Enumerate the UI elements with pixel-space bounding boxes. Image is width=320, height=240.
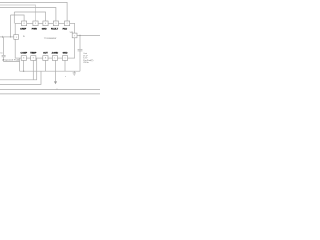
pin box top 2 <box>33 21 38 26</box>
pin box bottom 3 <box>43 56 48 61</box>
pin box bottom 5 <box>62 56 67 61</box>
svg-text:TEMP: TEMP <box>30 53 37 55</box>
wire rail5 <box>11 15 25 21</box>
junction dot output <box>79 35 80 36</box>
wire rail4 <box>14 12 45 21</box>
wire output <box>77 34 100 36</box>
svg-text:C1: C1 <box>0 53 2 55</box>
svg-text:1: 1 <box>54 58 55 60</box>
pin box top 1 <box>22 21 27 26</box>
wire output cap drop <box>79 35 81 71</box>
wire input left <box>0 36 14 38</box>
wire rail3 <box>0 8 56 22</box>
wire rail1 top <box>0 2 67 21</box>
svg-text:TTC08000SW: TTC08000SW <box>44 38 57 40</box>
pin box bottom 1 <box>21 56 26 61</box>
wire cap C1 branch <box>3 37 5 55</box>
svg-text:2: 2 <box>67 23 68 25</box>
wire bottom rail4 <box>0 93 100 95</box>
ground G1 <box>73 71 75 73</box>
svg-text:7: 7 <box>74 35 75 37</box>
svg-text:3: 3 <box>55 23 56 25</box>
svg-text:AGND: AGND <box>52 52 59 55</box>
pin box top 5 <box>65 21 70 26</box>
junction dot input <box>10 36 11 37</box>
wire cap C1 bottom <box>4 57 20 62</box>
wire bottom rail1 <box>0 58 37 80</box>
wire pin2 bottom drop <box>32 61 34 80</box>
svg-text:V33: V33 <box>70 32 73 34</box>
wire pin5 bottom drop <box>64 61 66 72</box>
svg-text:4: 4 <box>45 23 46 25</box>
svg-text:1: 1 <box>16 37 17 39</box>
junction dot pad rail <box>23 71 24 72</box>
input terminal tick <box>2 36 4 38</box>
svg-text:PWR: PWR <box>32 28 38 30</box>
pin box left <box>14 35 19 40</box>
svg-text:8: 8 <box>23 58 24 60</box>
svg-text:GND: GND <box>63 53 68 55</box>
pin box top 4 <box>53 21 58 26</box>
svg-text:5: 5 <box>35 23 36 25</box>
svg-text:GND: GND <box>42 28 47 30</box>
wire pin3 bottom drop <box>44 61 46 72</box>
svg-text:CREF: CREF <box>20 28 27 30</box>
wire bottom rail3 <box>0 88 100 90</box>
svg-text:FAULT: FAULT <box>51 27 59 30</box>
label Cout block <box>83 52 94 64</box>
svg-text:X5R dc: X5R dc <box>83 62 89 64</box>
op-amp U1 IC body outline <box>15 23 74 58</box>
svg-text:u: u <box>65 76 66 78</box>
wire exposed pad stub <box>19 58 21 71</box>
pin numbers <box>16 23 75 60</box>
pin box top 3 <box>43 21 48 26</box>
pin box right <box>72 33 77 38</box>
svg-text:8: 8 <box>45 58 46 60</box>
wire bottom rail2 <box>0 71 41 84</box>
svg-text:n: n <box>57 88 58 90</box>
capacitor C2 output plates <box>78 49 83 51</box>
wire rail2 <box>0 5 36 21</box>
svg-text:PAD: PAD <box>63 27 68 30</box>
svg-text:6: 6 <box>24 23 25 25</box>
capacitor C1 <box>2 54 6 56</box>
pin box bottom 4 <box>52 56 57 61</box>
wire left drop B <box>13 12 15 23</box>
wire pin1 bottom drop <box>23 61 25 72</box>
svg-text:(Exposed Pad): (Exposed Pad) <box>2 60 19 62</box>
svg-text:COMP: COMP <box>21 53 28 55</box>
pin box bottom 2 <box>31 56 36 61</box>
wire left drop A <box>10 15 12 37</box>
ground arrow head <box>54 81 57 84</box>
svg-text:1: 1 <box>65 58 66 60</box>
wire gnd rail mid <box>20 70 80 72</box>
wire pin4 bottom drop <box>55 61 57 82</box>
svg-text:OUT: OUT <box>43 53 48 55</box>
svg-text:9: 9 <box>33 58 34 60</box>
